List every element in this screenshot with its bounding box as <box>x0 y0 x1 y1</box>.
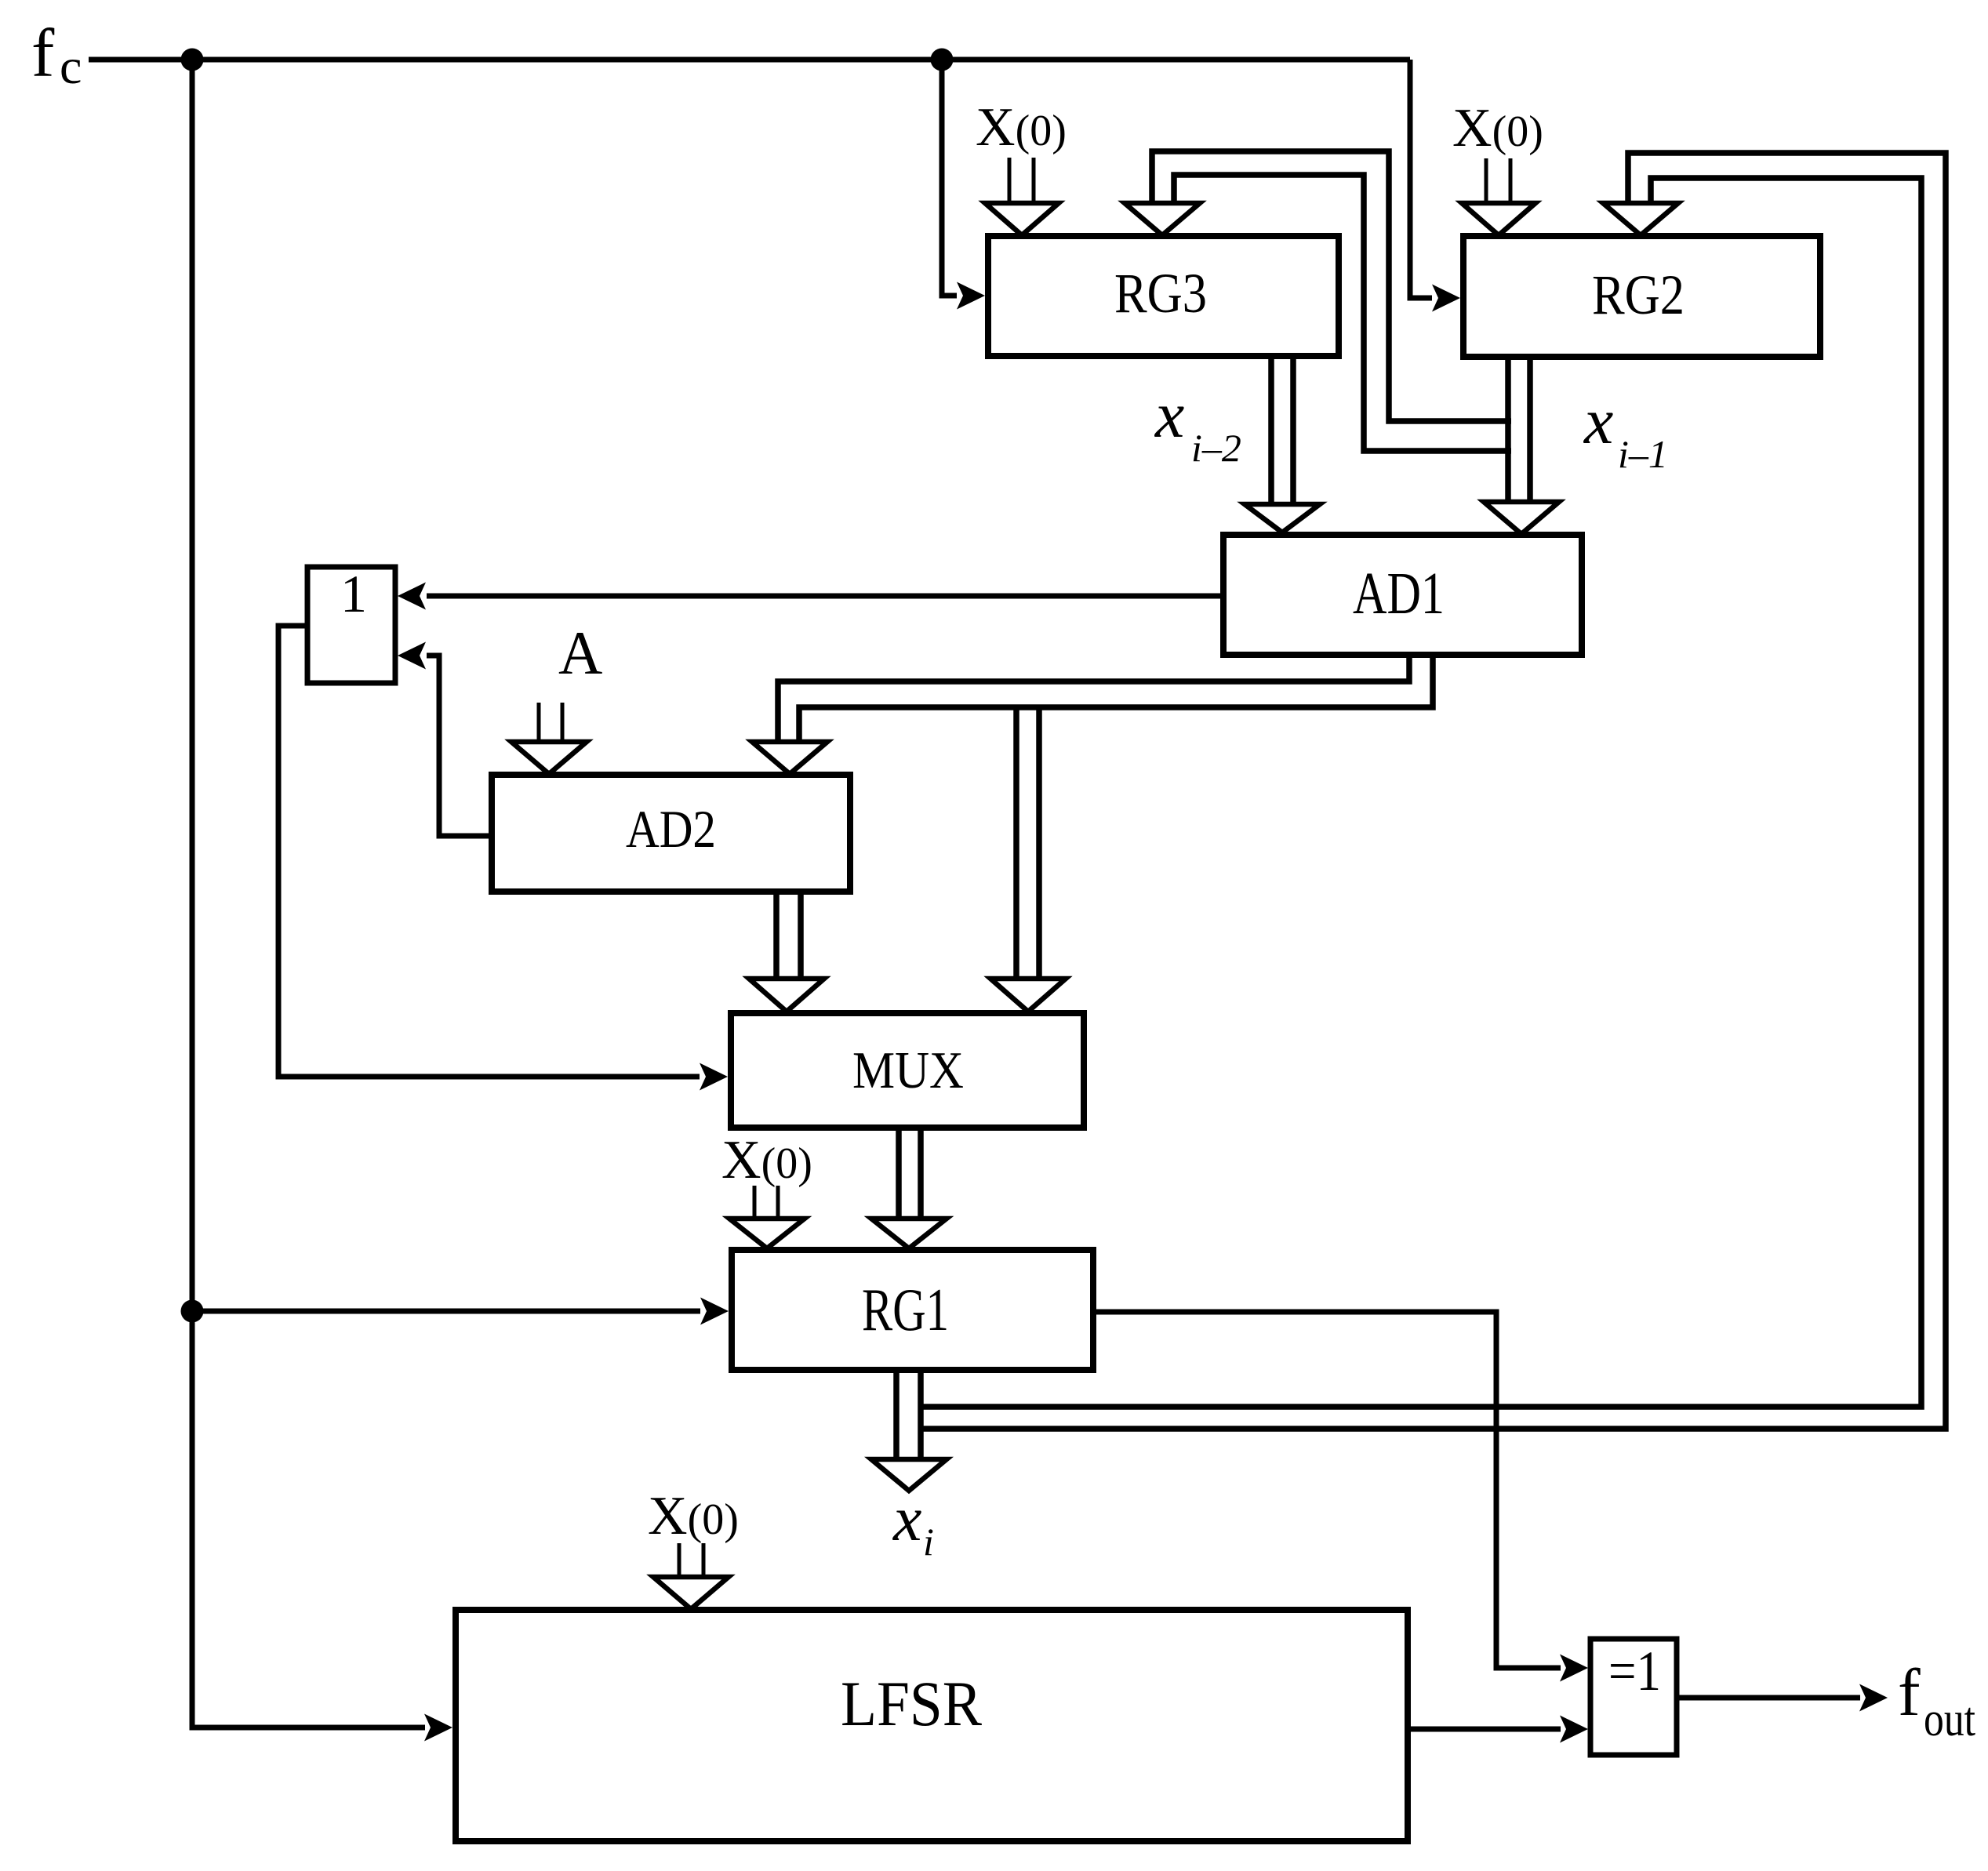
svg-text:=1: =1 <box>1608 1640 1661 1702</box>
svg-text:x: x <box>892 1483 921 1554</box>
svg-text:RG3: RG3 <box>1114 262 1207 325</box>
svg-text:i–1: i–1 <box>1618 432 1668 476</box>
svg-text:LFSR: LFSR <box>841 1668 982 1739</box>
svg-text:A: A <box>558 619 602 687</box>
svg-text:1: 1 <box>340 564 367 623</box>
svg-text:c: c <box>60 38 82 94</box>
svg-text:x: x <box>1583 385 1613 458</box>
svg-text:i–2: i–2 <box>1191 426 1241 470</box>
svg-text:AD2: AD2 <box>626 799 716 859</box>
svg-text:f: f <box>1898 1655 1921 1730</box>
svg-text:X(0): X(0) <box>976 97 1067 158</box>
svg-text:X(0): X(0) <box>721 1130 812 1190</box>
svg-text:RG1: RG1 <box>862 1276 949 1343</box>
svg-text:MUX: MUX <box>852 1041 964 1099</box>
svg-text:x: x <box>1154 379 1184 452</box>
svg-text:out: out <box>1924 1693 1975 1746</box>
svg-text:AD1: AD1 <box>1353 561 1445 627</box>
svg-text:f: f <box>31 16 55 92</box>
svg-text:X(0): X(0) <box>648 1486 739 1546</box>
svg-text:RG2: RG2 <box>1592 263 1685 326</box>
svg-text:X(0): X(0) <box>1452 98 1543 158</box>
svg-text:i: i <box>923 1520 934 1564</box>
